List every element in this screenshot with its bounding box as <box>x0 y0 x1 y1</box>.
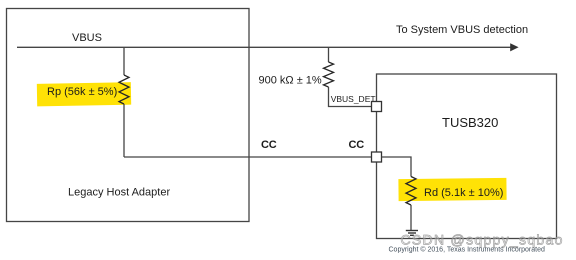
svg-text:Copyright © 2016, Texas Instru: Copyright © 2016, Texas Instruments Inco… <box>389 246 545 254</box>
highlight Rp value <box>37 82 131 106</box>
svg-text:Legacy Host Adapter: Legacy Host Adapter <box>68 187 170 199</box>
svg-text:Rd (5.1k ± 10%): Rd (5.1k ± 10%) <box>424 187 503 199</box>
resistor R 900k <box>324 62 334 87</box>
svg-text:CSDN @sqppy_sqbao: CSDN @sqppy_sqbao <box>401 232 564 248</box>
wire CC horizontal <box>124 156 372 158</box>
svg-text:900 kΩ ± 1%: 900 kΩ ± 1% <box>259 75 322 87</box>
pin VBUS_DET <box>372 102 382 112</box>
svg-text:VBUS: VBUS <box>72 32 102 44</box>
wire VBUS to Rp <box>123 47 125 75</box>
ground <box>406 231 418 236</box>
IC U1 TUSB320 <box>377 74 557 239</box>
svg-text:To System VBUS detection: To System VBUS detection <box>396 24 528 36</box>
svg-text:TUSB320: TUSB320 <box>442 115 498 130</box>
svg-text:CC: CC <box>349 139 365 151</box>
svg-text:CC: CC <box>261 139 277 151</box>
wire VBUS horizontal <box>17 46 511 48</box>
svg-text:Rp (56k ± 5%): Rp (56k ± 5%) <box>47 86 117 98</box>
wire VBUS to R 900k <box>328 47 330 62</box>
wire Rd to ground <box>410 205 412 231</box>
svg-text:VBUS_DET: VBUS_DET <box>331 94 376 104</box>
block Legacy Host Adapter <box>7 9 250 222</box>
wire CC pin to Rd <box>382 157 412 177</box>
resistor Rd <box>406 177 416 206</box>
pin CC <box>372 152 382 162</box>
resistor Rp <box>119 75 129 104</box>
arrow head to system VBUS detection <box>510 43 518 51</box>
wire Rp to CC <box>123 104 125 157</box>
wire R 900k to VBUS_DET pin <box>329 87 373 107</box>
highlight Rd value <box>398 178 506 201</box>
